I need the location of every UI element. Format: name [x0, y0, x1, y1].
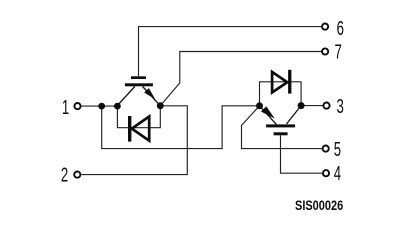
- svg-text:6: 6: [337, 17, 344, 39]
- Q2 emitter leg: [260, 106, 277, 125]
- wire diode D2 branch: node D up, axis through D2, down to node E: [260, 82, 302, 106]
- Q2 channel bar: [266, 124, 295, 127]
- wire node C to pin 7: [160, 52, 321, 106]
- Q2 emitter arrow: [261, 106, 275, 118]
- wire gate Q1 to pin 6: [139, 27, 322, 77]
- node D junction: [256, 102, 263, 109]
- node C junction: [157, 102, 164, 109]
- svg-text:SIS00026: SIS00026: [295, 197, 343, 213]
- svg-text:5: 5: [334, 138, 341, 160]
- svg-text:2: 2: [61, 164, 68, 186]
- diode D2 (right freewheel diode): [272, 70, 291, 94]
- wire node A down/right/up to node D: [102, 106, 260, 149]
- svg-text:4: 4: [334, 162, 341, 184]
- Q1 channel bar: [125, 83, 153, 86]
- wire gate Q2 to pin 4: [281, 135, 323, 173]
- wire diode D1 branch: node B down, axis through D1, up to node C: [117, 106, 160, 128]
- Q2 gate bar: [274, 132, 288, 135]
- pin 5 terminal: [323, 146, 329, 152]
- svg-text:3: 3: [337, 95, 344, 117]
- wire node C right/down/left to pin 2: [81, 106, 187, 175]
- Q1 collector leg: [117, 87, 134, 106]
- pin 7 terminal: [322, 48, 328, 54]
- transistor Q1 (left IGBT): [117, 76, 160, 106]
- svg-text:1: 1: [62, 96, 69, 118]
- pin 3 terminal: [323, 103, 329, 109]
- D2 triangle: [272, 72, 287, 93]
- wire node D to pin 5: [242, 106, 323, 149]
- Q2 collector leg: [287, 106, 302, 124]
- Q1 emitter leg: [143, 87, 161, 106]
- transistor Q2 (right IGBT): [260, 106, 302, 136]
- node E junction: [298, 102, 305, 109]
- node A junction: [98, 103, 105, 110]
- svg-text:7: 7: [335, 41, 342, 63]
- pin 2 terminal: [74, 172, 80, 178]
- diode D1 (left freewheel diode): [128, 116, 149, 142]
- Q1 gate bar: [131, 76, 146, 79]
- wire node E to pin 3: [301, 105, 323, 107]
- pin 1 terminal: [74, 103, 80, 109]
- pin 4 terminal: [323, 170, 329, 176]
- wire pin1 to node B: [82, 105, 118, 107]
- node B junction: [114, 103, 121, 110]
- D1 triangle: [132, 117, 149, 141]
- pin 6 terminal: [322, 24, 328, 30]
- Q1 emitter arrow: [144, 88, 155, 99]
- D2 cathode bar: [288, 70, 291, 94]
- D1 cathode bar: [128, 116, 131, 142]
